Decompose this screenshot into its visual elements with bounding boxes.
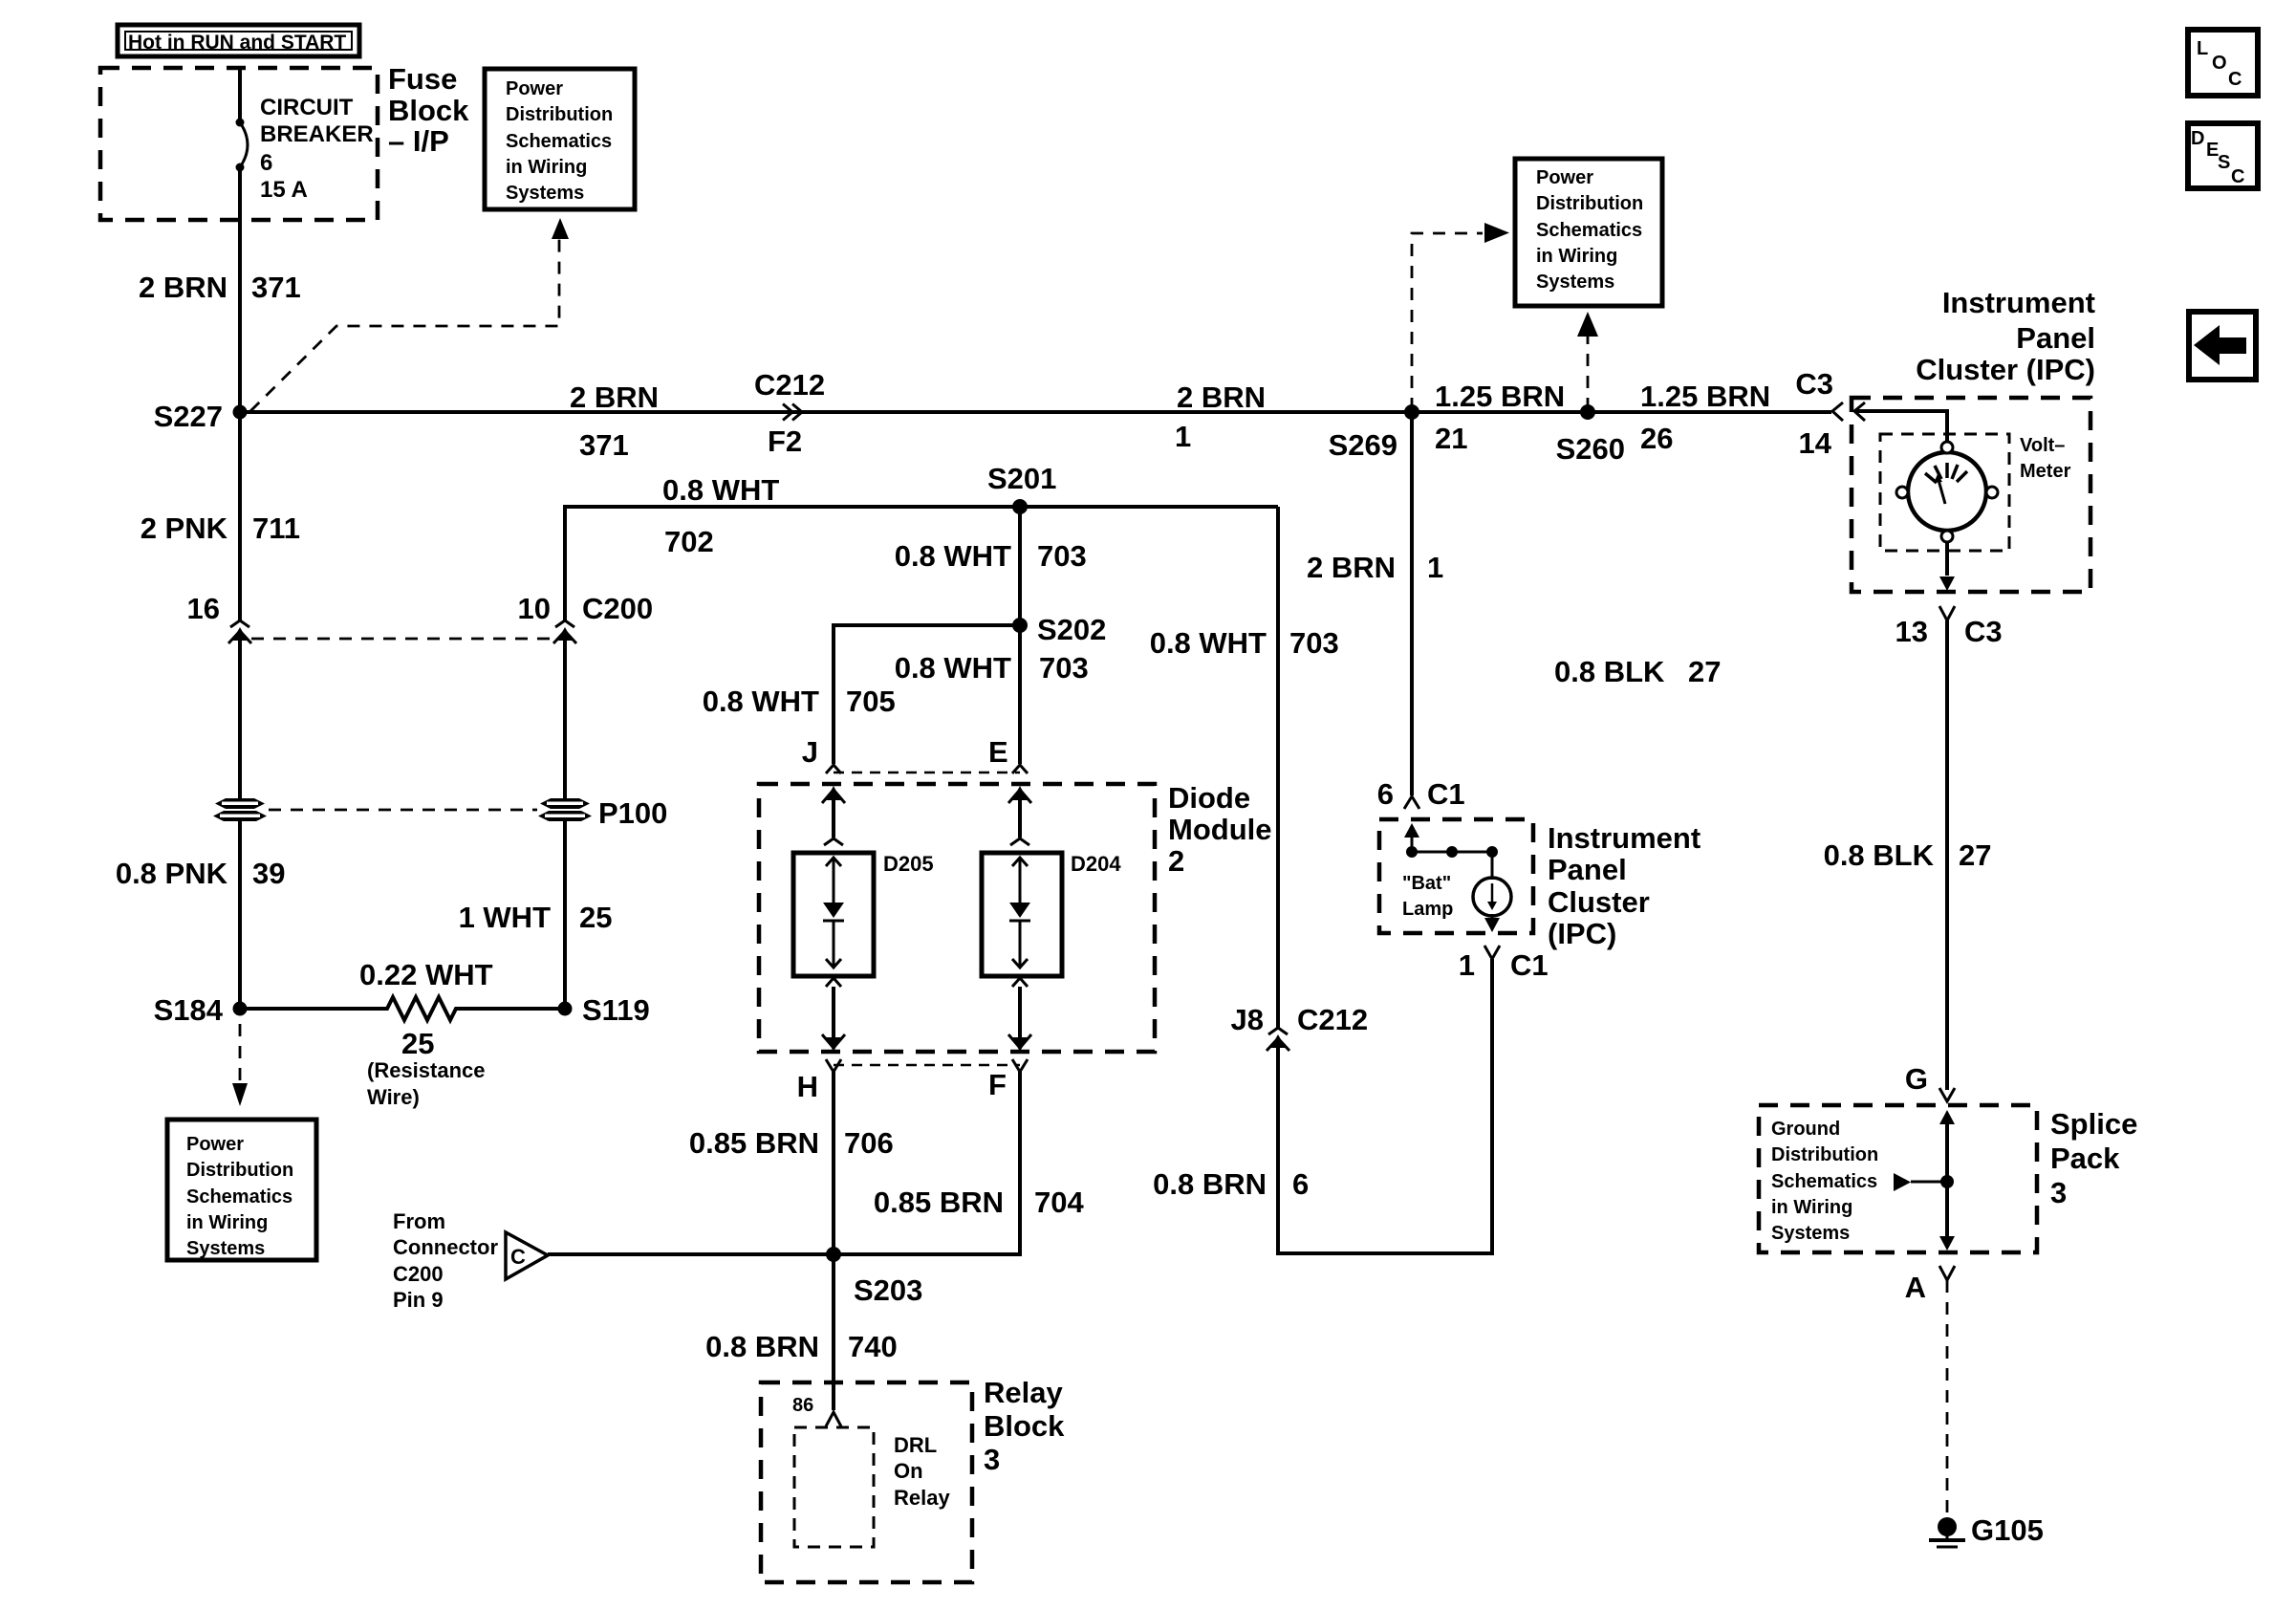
dashed arrow S184 down (239, 1024, 242, 1083)
diode D205 bottom pin (822, 978, 845, 1052)
svg-text:Ground: Ground (1771, 1119, 1840, 1140)
svg-text:S119: S119 (582, 993, 650, 1027)
svg-text:27: 27 (1959, 838, 1991, 872)
svg-text:Schematics: Schematics (186, 1186, 292, 1207)
splice pack internals (1894, 1110, 1955, 1251)
label Diode Module 2 (1168, 781, 1272, 878)
svg-text:21: 21 (1435, 422, 1467, 455)
svg-text:in Wiring: in Wiring (186, 1212, 268, 1233)
svg-text:D: D (2191, 128, 2204, 149)
arrow out of IPC box (1945, 542, 1949, 576)
svg-text:2 BRN: 2 BRN (570, 381, 659, 414)
label Instrument Panel Cluster (IPC) (1548, 821, 1700, 950)
svg-text:0.8 PNK: 0.8 PNK (116, 857, 228, 890)
svg-text:– I/P: – I/P (388, 124, 449, 158)
svg-text:371: 371 (251, 271, 301, 304)
svg-text:371: 371 (579, 428, 629, 462)
node S269 (1404, 404, 1419, 420)
fork 13 C3 (1939, 606, 1955, 620)
node S119 (558, 1002, 573, 1016)
svg-text:2 BRN: 2 BRN (1177, 381, 1266, 414)
fuse block dashed box (100, 68, 378, 220)
svg-text:H: H (797, 1070, 818, 1103)
svg-text:F2: F2 (768, 424, 802, 458)
triangle connector C (393, 1209, 548, 1312)
diode module dashed box (759, 784, 1155, 1052)
svg-text:A: A (1905, 1271, 1926, 1304)
banner Hot in RUN and START (118, 25, 359, 56)
relay block dashed box (761, 1382, 972, 1582)
svg-text:0.8 BLK: 0.8 BLK (1824, 838, 1935, 872)
dashed wire A to G105 (1946, 1280, 1949, 1513)
svg-text:C212: C212 (1297, 1003, 1368, 1036)
svg-text:S201: S201 (987, 462, 1056, 495)
svg-text:(IPC): (IPC) (1548, 917, 1616, 950)
svg-text:3: 3 (984, 1443, 1000, 1476)
svg-text:Distribution: Distribution (1536, 193, 1643, 214)
svg-text:C3: C3 (1964, 615, 2003, 648)
svg-text:39: 39 (252, 857, 285, 890)
svg-text:Power: Power (506, 78, 563, 99)
dashed path S260 to power box 2 (1587, 337, 1590, 410)
resistance wire S184-S119 (240, 958, 565, 1109)
wire S202 down to E (1018, 625, 1022, 764)
connector fork F top (1012, 1059, 1028, 1072)
P100 grommet right (538, 796, 667, 830)
svg-text:in Wiring: in Wiring (506, 157, 587, 178)
svg-text:13: 13 (1895, 615, 1928, 648)
svg-text:Instrument: Instrument (1548, 821, 1700, 855)
svg-text:6: 6 (1292, 1167, 1309, 1201)
node S201 (1012, 499, 1028, 514)
node S203 (826, 1247, 841, 1262)
connector 10 C200 (518, 592, 654, 643)
svg-text:Distribution: Distribution (506, 104, 613, 125)
svg-text:Pack: Pack (2050, 1142, 2120, 1175)
svg-text:in Wiring: in Wiring (1771, 1197, 1852, 1218)
svg-text:740: 740 (848, 1330, 898, 1363)
node S260 (1580, 404, 1595, 420)
diode D204 bottom pin (1008, 978, 1031, 1052)
svg-text:C200: C200 (393, 1262, 444, 1286)
svg-text:Block: Block (984, 1409, 1065, 1443)
power distribution box 3 (167, 1120, 316, 1260)
svg-text:1.25 BRN: 1.25 BRN (1435, 380, 1565, 413)
connector fork J (826, 765, 841, 773)
main wire y=431 (240, 410, 1831, 414)
ground distribution text (1771, 1119, 1878, 1244)
fork 1 C1 (1484, 946, 1500, 959)
svg-text:Relay: Relay (984, 1376, 1063, 1409)
arrow into bat box (1404, 823, 1419, 838)
svg-text:Distribution: Distribution (186, 1160, 293, 1181)
power distribution box 2 (1515, 159, 1662, 306)
svg-text:G105: G105 (1971, 1513, 2044, 1547)
svg-text:S: S (2218, 152, 2230, 173)
svg-text:711: 711 (252, 511, 300, 545)
svg-text:C200: C200 (582, 592, 653, 625)
svg-text:27: 27 (1688, 655, 1721, 688)
ground G105 (1929, 1513, 2044, 1547)
voltmeter (1896, 442, 1998, 542)
svg-text:F: F (988, 1068, 1007, 1101)
label Instrument Panel Cluster (IPC) top right (1916, 286, 2095, 386)
wire 0.8 WHT 703 vertical x=1337 (1276, 507, 1280, 1028)
dashed path S227 to power box 1 (250, 239, 559, 411)
svg-text:C212: C212 (754, 368, 825, 402)
wire fuse to S227 (x=251 upper) (238, 68, 242, 621)
svg-text:C: C (510, 1245, 526, 1269)
svg-text:704: 704 (1034, 1186, 1084, 1219)
connector fork E (1012, 765, 1028, 773)
svg-text:25: 25 (579, 901, 612, 934)
dashed line C200 16-10 (251, 638, 554, 641)
svg-text:Systems: Systems (186, 1238, 265, 1259)
wire J8 down and across to IPC C1 pin1 (1278, 959, 1492, 1253)
label Fuse Block - I/P (388, 62, 469, 158)
label Relay Block 3 (984, 1376, 1065, 1476)
svg-text:C3: C3 (1795, 367, 1833, 401)
svg-text:703: 703 (1289, 626, 1339, 660)
svg-text:Panel: Panel (2016, 321, 2095, 355)
connector J8 C212 (1231, 1003, 1369, 1051)
svg-text:C: C (2228, 69, 2242, 90)
wire into IPC to voltmeter (1854, 411, 1947, 442)
svg-text:E: E (988, 735, 1008, 769)
diode D204 (982, 852, 1121, 976)
svg-text:Instrument: Instrument (1942, 286, 2095, 319)
svg-text:C: C (2231, 166, 2244, 187)
svg-text:1: 1 (1459, 948, 1475, 982)
svg-text:O: O (2212, 53, 2227, 74)
svg-text:Pin 9: Pin 9 (393, 1288, 444, 1312)
svg-text:0.8 BRN: 0.8 BRN (1153, 1167, 1267, 1201)
wire S269 down to IPC 6 C1 (1410, 412, 1414, 795)
svg-text:0.85 BRN: 0.85 BRN (874, 1186, 1004, 1219)
svg-text:703: 703 (1039, 651, 1089, 685)
svg-text:BREAKER: BREAKER (260, 121, 374, 147)
svg-text:0.8 WHT: 0.8 WHT (703, 685, 819, 718)
svg-text:25: 25 (401, 1027, 434, 1060)
label Splice Pack 3 (2050, 1107, 2137, 1209)
svg-text:1.25 BRN: 1.25 BRN (1640, 380, 1770, 413)
node S227 (233, 405, 248, 420)
svg-text:S202: S202 (1037, 613, 1106, 646)
svg-text:3: 3 (2050, 1176, 2067, 1209)
svg-text:0.8 WHT: 0.8 WHT (662, 473, 779, 507)
svg-text:Fuse: Fuse (388, 62, 457, 96)
svg-text:Volt–: Volt– (2020, 435, 2065, 456)
svg-text:Power: Power (1536, 167, 1593, 188)
svg-text:Distribution: Distribution (1771, 1144, 1878, 1165)
connector fork H top (826, 1059, 841, 1072)
IPC bat-lamp dashed box (1379, 819, 1533, 933)
wire F to S203 (834, 1072, 1020, 1254)
svg-text:706: 706 (844, 1126, 894, 1160)
fork G (1939, 1088, 1955, 1101)
connector 16 (C200 left) (187, 592, 251, 688)
wire S202 left branch to J (834, 625, 1020, 764)
LOC box (2188, 30, 2258, 96)
svg-text:Diode: Diode (1168, 781, 1250, 815)
svg-text:S184: S184 (154, 993, 224, 1027)
svg-text:S269: S269 (1329, 428, 1397, 462)
svg-text:J8: J8 (1231, 1003, 1264, 1036)
IPC outer dashed box (voltmeter) (1852, 398, 2090, 592)
wire x=591 C200 to S119 (563, 507, 567, 1009)
wire 0.8 WHT 702 (565, 507, 1278, 621)
svg-text:L: L (2197, 38, 2208, 59)
svg-text:15 A: 15 A (260, 177, 308, 203)
wire S203 to relay (832, 1254, 835, 1410)
node S184 (233, 1002, 248, 1016)
svg-text:Schematics: Schematics (1536, 220, 1642, 241)
svg-text:Schematics: Schematics (506, 131, 612, 152)
svg-text:2: 2 (1168, 844, 1184, 878)
svg-text:1: 1 (1175, 420, 1191, 453)
connector C212 F2 (754, 368, 825, 458)
svg-text:1 WHT: 1 WHT (459, 901, 552, 934)
svg-text:P100: P100 (598, 796, 667, 830)
dashed connector line J-E (834, 772, 1020, 774)
svg-text:26: 26 (1640, 422, 1673, 455)
svg-text:0.8 BRN: 0.8 BRN (705, 1330, 819, 1363)
DRL On Relay inner box (794, 1427, 950, 1547)
svg-text:10: 10 (518, 592, 551, 625)
svg-text:Lamp: Lamp (1402, 899, 1453, 920)
wire H to S203 (832, 1072, 835, 1254)
svg-text:Panel: Panel (1548, 853, 1627, 886)
node S202 (1012, 618, 1028, 633)
svg-text:Splice: Splice (2050, 1107, 2137, 1141)
svg-text:S227: S227 (154, 400, 223, 433)
svg-text:0.8 WHT: 0.8 WHT (1150, 626, 1267, 660)
svg-text:Systems: Systems (1771, 1223, 1850, 1244)
svg-text:"Bat": "Bat" (1402, 873, 1451, 894)
svg-text:From: From (393, 1209, 445, 1233)
diode D204 top pin arrow (1008, 786, 1031, 845)
svg-text:in Wiring: in Wiring (1536, 246, 1617, 267)
svg-text:Systems: Systems (1536, 272, 1614, 293)
svg-text:Meter: Meter (2020, 461, 2071, 482)
svg-text:0.85 BRN: 0.85 BRN (689, 1126, 819, 1160)
circuit breaker 6 15A (236, 95, 374, 203)
svg-text:Block: Block (388, 94, 469, 127)
svg-text:6: 6 (260, 150, 272, 176)
svg-text:C1: C1 (1427, 777, 1465, 811)
arrow out of bat box (1491, 914, 1494, 920)
svg-text:G: G (1905, 1062, 1928, 1096)
wire S201 to S202 (1018, 507, 1022, 625)
diode D205 (793, 852, 934, 976)
svg-text:C1: C1 (1510, 948, 1549, 982)
svg-text:16: 16 (187, 592, 220, 625)
svg-text:Schematics: Schematics (1771, 1171, 1877, 1192)
dashed connector line H-F (834, 1064, 1020, 1067)
svg-text:703: 703 (1037, 539, 1087, 573)
svg-text:CIRCUIT: CIRCUIT (260, 95, 354, 120)
svg-text:Cluster (IPC): Cluster (IPC) (1916, 353, 2095, 386)
svg-text:Wire): Wire) (367, 1085, 420, 1109)
svg-text:Systems: Systems (506, 183, 584, 204)
svg-text:1: 1 (1427, 551, 1443, 584)
svg-text:Connector: Connector (393, 1235, 498, 1259)
DESC box (2188, 123, 2258, 188)
dashed path S269 to power box 2 (1412, 233, 1483, 410)
svg-text:On: On (894, 1459, 923, 1483)
svg-text:0.8 BLK: 0.8 BLK (1554, 655, 1665, 688)
P100 grommet left (213, 798, 267, 821)
svg-text:Cluster: Cluster (1548, 885, 1650, 919)
wire C to S203 (548, 1252, 834, 1256)
svg-text:J: J (802, 735, 818, 769)
svg-text:0.8 WHT: 0.8 WHT (895, 539, 1011, 573)
svg-text:S260: S260 (1556, 432, 1625, 466)
svg-text:DRL: DRL (894, 1433, 937, 1457)
svg-text:14: 14 (1799, 426, 1832, 460)
svg-text:S203: S203 (854, 1273, 922, 1307)
svg-text:705: 705 (846, 685, 896, 718)
wire 13 C3 down to G (1945, 620, 1949, 1090)
svg-text:86: 86 (792, 1395, 813, 1416)
svg-text:D204: D204 (1071, 852, 1121, 876)
power distribution box 1 (485, 69, 635, 209)
svg-text:6: 6 (1377, 777, 1394, 811)
splice pack dashed box (1759, 1105, 2037, 1252)
connector C3 14 (1795, 367, 1865, 460)
bat lamp (1402, 873, 1511, 920)
svg-text:2 BRN: 2 BRN (1307, 551, 1396, 584)
fork A (1939, 1266, 1955, 1280)
svg-text:D205: D205 (883, 852, 934, 876)
svg-text:Power: Power (186, 1134, 244, 1155)
diode D205 top pin arrow (822, 786, 845, 845)
pin 86 fork (792, 1395, 841, 1426)
arrow into power box 1 (552, 218, 569, 239)
wire x=251 S227 to S184 (238, 412, 242, 1009)
dashed line P100 (269, 809, 537, 812)
svg-text:Relay: Relay (894, 1486, 950, 1510)
svg-text:0.8 WHT: 0.8 WHT (895, 651, 1011, 685)
back arrow box (2189, 312, 2256, 380)
svg-text:Module: Module (1168, 813, 1272, 846)
svg-text:Hot in RUN and START: Hot in RUN and START (128, 32, 346, 54)
fork 6 C1 (1404, 796, 1419, 809)
svg-text:(Resistance: (Resistance (367, 1058, 486, 1082)
bat lamp internal wiring (1412, 852, 1492, 880)
svg-text:0.22 WHT: 0.22 WHT (359, 958, 493, 991)
voltmeter inner dashed box (1880, 434, 2009, 551)
svg-text:2 PNK: 2 PNK (141, 511, 228, 545)
svg-text:702: 702 (664, 525, 714, 558)
svg-text:2 BRN: 2 BRN (139, 271, 227, 304)
